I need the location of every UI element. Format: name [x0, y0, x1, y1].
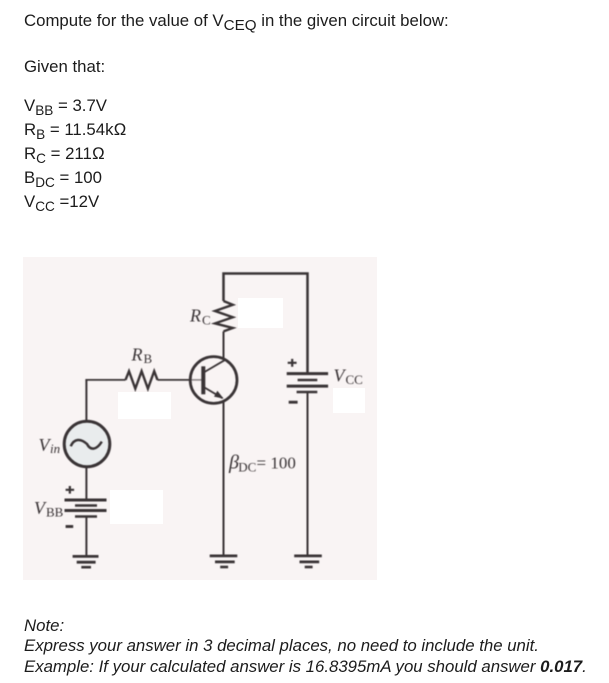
svg-text:R: R — [189, 306, 201, 326]
svg-text:C: C — [202, 313, 211, 328]
svg-text:= 100: = 100 — [257, 454, 296, 473]
svg-text:B: B — [144, 351, 153, 366]
svg-text:CC: CC — [346, 372, 363, 387]
svg-text:in: in — [50, 441, 60, 456]
svg-text:DC: DC — [238, 460, 256, 475]
svg-text:R: R — [131, 345, 143, 365]
svg-text:BB: BB — [46, 505, 64, 520]
